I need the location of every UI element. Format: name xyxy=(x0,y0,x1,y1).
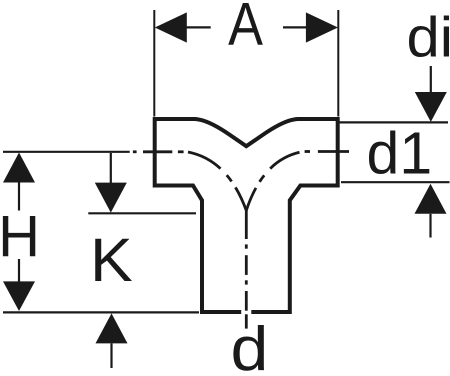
dimension A: extension lines xyxy=(153,10,155,117)
vertical centerline lower dash-dot xyxy=(245,244,248,328)
horizontal centerline dash-dot right xyxy=(305,150,349,153)
horizontal centerline dash-dot left xyxy=(133,150,184,153)
fitting outline (Y-branch body, thick) xyxy=(155,119,338,312)
right branch curved centerline xyxy=(246,152,299,210)
svg-text:di: di xyxy=(407,6,450,69)
K bottom up-arrow xyxy=(96,313,128,343)
svg-text:K: K xyxy=(90,226,133,294)
di measure line xyxy=(338,121,448,123)
dimension A: line + arrows xyxy=(180,26,211,28)
left branch curved centerline xyxy=(188,152,246,239)
svg-text:A: A xyxy=(228,0,263,57)
di arrow xyxy=(430,66,432,92)
svg-text:d: d xyxy=(231,314,269,376)
K top line xyxy=(88,212,196,214)
dimension H: vertical line with arrows xyxy=(3,153,35,183)
svg-text:d1: d1 xyxy=(367,121,433,187)
dimension K: top down-arrow xyxy=(110,153,112,183)
horizontal centerline solid left part (H extension) xyxy=(3,151,130,153)
d1 measure line xyxy=(341,181,450,183)
d1 arrow xyxy=(415,184,447,214)
bottom reference line (H/K bottom) xyxy=(3,311,199,313)
